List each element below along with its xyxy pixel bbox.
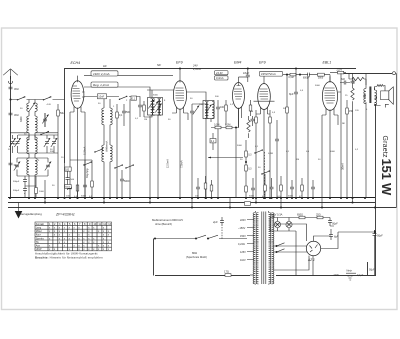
resistor R11 (346, 100, 354, 198)
power transformer T4 (253, 211, 274, 285)
resistor R6 0,3M (225, 123, 232, 129)
resistor R31 (89, 160, 93, 198)
capacitor 30pF (9, 113, 20, 117)
svg-text:50μF: 50μF (377, 235, 383, 238)
svg-text:195V/72mA: 195V/72mA (261, 72, 276, 76)
ECH4 pin stubs (70, 107, 85, 198)
svg-text:Kurz: Kurz (36, 234, 42, 237)
coil L3 (35, 116, 37, 140)
resistor R19 (278, 176, 283, 198)
wire: AZ1 heater from transformer (274, 246, 308, 252)
resistor R1 (57, 104, 65, 122)
svg-text:0,2M: 0,2M (268, 153, 273, 155)
resistor R18 (262, 174, 266, 198)
svg-text:24V: 24V (192, 64, 198, 68)
wire: IFT1 connections (140, 90, 174, 198)
resistor R13 650 (297, 213, 305, 219)
wire: anode measure line 192V/2,2mA (84, 75, 173, 77)
resistor R16 (245, 165, 252, 171)
capacitor C15 3nF (340, 78, 350, 85)
svg-text:0,1M: 0,1M (289, 77, 294, 79)
svg-text:50μF: 50μF (369, 269, 375, 272)
note Zwischenfrequenz (20, 212, 75, 217)
wire: T2 connections (187, 92, 212, 198)
coil L8 (102, 99, 104, 145)
wire: c14 drop (307, 76, 309, 198)
resistor R10 (286, 75, 289, 198)
wire: EM4 anode (239, 76, 248, 78)
capacitor C21 (270, 178, 274, 198)
svg-text:Wellensch.: Wellensch. (106, 140, 109, 152)
rectifier tube AZ1 (306, 241, 320, 262)
svg-text:100: 100 (220, 106, 225, 109)
switch S8 (254, 149, 270, 174)
brand Graetz (381, 136, 388, 159)
resistor R15 (245, 151, 252, 157)
wire: EBL1 anode to output (338, 73, 341, 198)
svg-text:NF: NF (157, 63, 161, 67)
svg-text:Graetz: Graetz (381, 136, 388, 159)
trimmer T1a (148, 100, 154, 109)
wire: lamp top rail (270, 217, 330, 219)
svg-text:Lang: Lang (36, 227, 42, 230)
table row labels (36, 223, 45, 251)
wire: EF9 cathode drop (149, 116, 151, 198)
node coupling (299, 74, 301, 76)
trimmer T1c (152, 102, 158, 111)
svg-text:5000: 5000 (124, 180, 130, 183)
coil L2 (20, 116, 29, 140)
wire: band switch row (11, 99, 65, 101)
note Meßinstrument (152, 218, 183, 226)
measure box 192V 2,2mA (91, 71, 118, 76)
wire: right HT vertical (375, 104, 377, 275)
resistor R25 (249, 100, 252, 116)
label ECH4 (71, 61, 81, 65)
resistor R9 (283, 73, 300, 79)
switch S6 (114, 164, 123, 168)
svg-text:220V: 220V (334, 274, 340, 277)
svg-text:36mA: 36mA (341, 163, 345, 170)
coil L10 (102, 145, 104, 198)
capacitor C8 (122, 104, 131, 122)
capacitor C14 800pF (300, 73, 318, 80)
svg-text:5000: 5000 (249, 196, 255, 198)
trimmer C2 (42, 115, 48, 124)
node bus joints band2 (103, 197, 131, 199)
EBL1 pin stubs (322, 109, 338, 199)
coil L4 (27, 135, 29, 157)
wire: bottom mains right (276, 262, 376, 276)
wire: third bus (8, 207, 397, 209)
capacitor C9 (120, 170, 130, 198)
label RegSpg vertical (86, 168, 89, 178)
mechanical link dashes (221, 227, 223, 239)
label EF9 (176, 61, 183, 65)
resistor R4 (225, 100, 228, 125)
svg-text:1M: 1M (144, 119, 147, 121)
EF9 pin stubs (172, 107, 188, 120)
capacitor C7 300pF (13, 186, 27, 198)
svg-text:1M: 1M (250, 111, 253, 113)
resistor zigzag R26 (247, 116, 250, 138)
value labels scatter group 1 (front end) (13, 97, 64, 195)
capacitor C10 (138, 99, 142, 112)
label 6,3V 0,3A (271, 213, 283, 217)
box 100pF (65, 167, 71, 171)
capacitor C22 (288, 180, 294, 198)
node EBL1 bus (329, 197, 331, 199)
svg-text:EF9: EF9 (259, 61, 266, 65)
trimmer C5b (51, 138, 57, 147)
resistor R17 (245, 140, 248, 198)
wire: main chassis bus (8, 197, 375, 199)
svg-text:30c²: 30c² (14, 87, 19, 91)
wire: lamp bottom rail (270, 218, 296, 276)
resistor R40 1000 (35, 186, 45, 198)
wire: grid row band2 (84, 97, 140, 100)
svg-text:Kontakt: Kontakt (36, 223, 45, 226)
measure box 24,3V (215, 71, 229, 75)
node EF9 bus (179, 197, 181, 199)
switch S3 (40, 131, 49, 135)
tube EM4 (233, 77, 245, 128)
svg-text:ECH4: ECH4 (71, 61, 81, 65)
node EBF bus (263, 197, 265, 199)
trimmer C5a (44, 138, 53, 151)
svg-text:5000: 5000 (237, 145, 243, 147)
svg-text:192V 2,2mA: 192V 2,2mA (93, 72, 110, 76)
svg-text:24,3V: 24,3V (215, 71, 223, 75)
svg-text:650Ω: 650Ω (297, 213, 303, 216)
svg-text:Reg.Spg.: Reg.Spg. (86, 168, 89, 178)
svg-text:TA: TA (36, 241, 39, 244)
mech link dashes 2 (264, 152, 266, 195)
resistor R5 0,3M (214, 123, 221, 129)
coil L11 (110, 145, 112, 198)
svg-text:0,3mA: 0,3mA (216, 76, 224, 80)
svg-text:30c²: 30c² (14, 113, 19, 117)
wire: avc left run (70, 160, 92, 170)
svg-text:220V: 220V (336, 69, 343, 72)
capacitor 16uF (243, 69, 250, 82)
capacitor 8uF b (329, 229, 339, 240)
resistor R20 (299, 178, 303, 198)
wire: top measurement line NF (65, 69, 357, 164)
wire: heater line (272, 215, 275, 218)
transformer primary taps (238, 219, 254, 262)
switch S10 (94, 148, 103, 152)
svg-text:3000: 3000 (20, 116, 23, 122)
node comb joints (245, 197, 314, 199)
trimmer T2b (205, 105, 211, 114)
value labels scatter group 3 (right half) (250, 85, 368, 114)
capacitor C11 (190, 104, 194, 120)
svg-text:150: 150 (349, 110, 354, 113)
wire: AZ1 anode feeds (274, 224, 314, 276)
resistor R2 (116, 104, 123, 130)
svg-text:800pF: 800pF (303, 77, 310, 79)
switch S1 (17, 96, 26, 100)
terminal circle (393, 72, 396, 75)
label 72mA vertical (341, 163, 345, 170)
svg-text:ZF=432kHz: ZF=432kHz (55, 213, 75, 217)
node res bus (255, 197, 278, 199)
switch S7 (125, 164, 134, 168)
node IFT joints (149, 197, 159, 199)
output transformer T3 (364, 74, 381, 199)
box 0,1 (131, 96, 137, 100)
wire: row2 link (10, 132, 58, 134)
label NF (157, 63, 161, 67)
dial lamp La1 (274, 218, 280, 232)
capacitor C12 (216, 100, 225, 198)
field coil zigzag (375, 85, 386, 91)
capacitor C33 (251, 116, 255, 126)
switch selector arms (275, 243, 284, 253)
svg-text:50μF: 50μF (332, 223, 338, 226)
svg-text:11,5mA: 11,5mA (84, 146, 87, 155)
node comb joints 2 (197, 197, 213, 199)
svg-text:2μF: 2μF (212, 220, 218, 224)
box 0,1b (210, 133, 216, 150)
switch S5 (119, 96, 128, 100)
svg-text:110V: 110V (240, 259, 246, 262)
tube EF9 (173, 69, 186, 198)
value labels scatter group 4 (237, 123, 359, 169)
capacitor 50uF a (328, 218, 338, 227)
speaker LS (381, 87, 394, 105)
trimmer C4a (8, 138, 16, 151)
svg-text:(Sperrkreis 9kHz): (Sperrkreis 9kHz) (186, 255, 207, 259)
svg-text:1000: 1000 (39, 191, 45, 193)
wire: band2 verticals to bus (117, 99, 130, 198)
coil L5 (35, 135, 37, 157)
resistor R3 (143, 101, 146, 116)
fuse on bus (245, 202, 251, 206)
resistor R30 (74, 185, 79, 198)
box 5000b (65, 183, 71, 190)
table: band switch chart (35, 222, 112, 251)
svg-text:EBL1: EBL1 (323, 61, 332, 65)
node j287 (286, 67, 309, 199)
note below table line1 (35, 252, 98, 256)
wire: screen measure line Reg 1,2mA (84, 87, 150, 97)
node 341 (340, 197, 354, 199)
label EM4 (234, 61, 241, 65)
wire: bottom mains run (155, 275, 250, 277)
node antenna junction (9, 98, 11, 100)
box 5000 (318, 73, 331, 82)
svg-text:EM4: EM4 (234, 61, 241, 65)
svg-text:0,3M: 0,3M (225, 123, 230, 126)
wire: osc section verticals (45, 113, 58, 198)
note below table line2 (35, 255, 103, 259)
label Wellensch vertical (106, 140, 109, 152)
wire: speaker top line (341, 73, 392, 75)
svg-text:220V: 220V (240, 219, 246, 222)
measure box Reg 1,2mA (91, 82, 118, 87)
svg-text:5000: 5000 (65, 187, 71, 189)
coil L6 (27, 157, 29, 198)
capacitor C24 (195, 178, 200, 198)
svg-text:150V: 150V (240, 235, 246, 238)
EBF pin stubs (256, 108, 270, 115)
wire: AVC line (208, 157, 247, 163)
svg-text:HF: HF (103, 64, 107, 68)
svg-text:Mittel: Mittel (36, 230, 42, 233)
coil L9 (110, 99, 112, 145)
svg-text:5000: 5000 (315, 85, 321, 87)
wire: osc box mid (13, 135, 59, 153)
node left comb joints (69, 197, 93, 199)
svg-text:80Ω: 80Ω (192, 251, 197, 255)
svg-text:Beachte: Hinweis für Netzansch: Beachte: Hinweis für Netzanschluß empfoh… (35, 255, 103, 259)
node bus joints left (9, 197, 66, 199)
capacitor C32 (9, 163, 17, 167)
node grid row (191, 126, 237, 199)
tube EBL1 (322, 76, 337, 198)
capacitor 50uF b (373, 230, 384, 239)
antenna (3, 69, 18, 79)
capacitor C34 (66, 171, 75, 183)
trimmer C4b (14, 138, 20, 147)
mains switch (155, 235, 247, 239)
svg-text:300pF: 300pF (13, 190, 20, 192)
bus stubs and joints lower (44, 198, 354, 209)
svg-text:Netz: Netz (347, 269, 353, 273)
svg-text:300pF: 300pF (13, 181, 20, 183)
svg-text:151 W: 151 W (379, 159, 394, 197)
label Sperrkreis (186, 251, 207, 259)
svg-text:AZ 1: AZ 1 (307, 258, 315, 262)
trimmer T1b (155, 104, 161, 113)
svg-text:16μF: 16μF (243, 71, 249, 75)
svg-text:1M: 1M (296, 159, 299, 161)
wire: block3 frame (17, 158, 48, 176)
label 11,5mA vertical (166, 159, 170, 168)
node ECH4 cathode (76, 197, 78, 199)
svg-text:4-20: 4-20 (47, 104, 52, 106)
svg-text:Bezugsdämpfung: Bezugsdämpfung (20, 212, 42, 216)
trimmer T2a (193, 106, 199, 115)
svg-text:8μF: 8μF (289, 92, 294, 96)
resistor R8 (269, 110, 272, 198)
wire: speaker drop (385, 104, 389, 107)
capacitor C13 (275, 120, 279, 198)
box 0,1M second (330, 69, 346, 74)
wire: c6 row link (25, 176, 36, 186)
table x marks (49, 223, 112, 251)
svg-text:7,5mA: 7,5mA (180, 160, 184, 168)
wire: EM4 grid row (211, 108, 239, 199)
svg-text:11,5mA: 11,5mA (166, 159, 170, 168)
svg-text:Reg. 1,2mA: Reg. 1,2mA (93, 83, 109, 87)
capacitor C17 8uF (289, 69, 298, 198)
svg-text:6,3V 0,3A: 6,3V 0,3A (271, 213, 283, 217)
resistor R7 (255, 110, 258, 198)
svg-text:17Ω: 17Ω (224, 270, 229, 274)
tube EBF2 (254, 76, 275, 198)
node out (364, 197, 376, 209)
capacitor C3 (43, 113, 47, 127)
label EF9 second (259, 61, 266, 65)
tube ECH4 (71, 76, 84, 198)
wire: osc left box vertical to bus (64, 163, 66, 198)
svg-text:5000: 5000 (318, 77, 324, 79)
trimmer C1 (29, 103, 35, 112)
model 151 W (379, 159, 394, 197)
svg-text:Sperrkr.: Sperrkr. (36, 237, 45, 240)
svg-text:0,3M: 0,3M (214, 123, 219, 126)
measure box 195V/72mA (260, 71, 283, 76)
svg-text:25Ω: 25Ω (316, 213, 321, 216)
svg-text:Meßinstrument 2000 Ω/V: Meßinstrument 2000 Ω/V (152, 218, 183, 222)
svg-text:5000: 5000 (330, 151, 336, 153)
svg-text:~150V: ~150V (238, 227, 246, 230)
capacitor C23 (311, 180, 315, 198)
svg-text:10nF: 10nF (98, 95, 104, 99)
wire: switch feed vertical (153, 239, 155, 276)
coil L1 (27, 100, 37, 117)
trimmer C5d (45, 162, 51, 171)
svg-text:0,24Ω: 0,24Ω (238, 243, 245, 246)
svg-text:5000: 5000 (153, 95, 159, 97)
resistor R12 17ohm (224, 270, 253, 277)
svg-text:ohne (Bereich): ohne (Bereich) (155, 222, 172, 226)
antenna coupling circle (8, 81, 12, 84)
IF transformer T2 (203, 101, 214, 119)
dial lamp La2 (286, 218, 292, 232)
coil L7 (35, 157, 37, 198)
capacitor 2uF (212, 217, 224, 226)
label HF (103, 64, 107, 68)
svg-text:EF9: EF9 (176, 61, 183, 65)
label EBL1 (323, 61, 332, 65)
svg-text:0,1μF: 0,1μF (357, 274, 364, 277)
IF transformer T1 (148, 98, 163, 116)
svg-text:3nF: 3nF (341, 78, 346, 81)
capacitor C6 300pF (13, 176, 27, 186)
node ht (374, 231, 376, 233)
resistor R14 25 (316, 213, 323, 219)
capacitor 50cm (9, 87, 20, 91)
node top bus joint (179, 67, 249, 69)
wire: far right edge drop (395, 74, 398, 208)
capacitor C31 (81, 170, 87, 198)
label 50uF c (369, 269, 375, 272)
capacitor block 10nF (98, 94, 107, 99)
svg-text:5000: 5000 (288, 196, 294, 198)
label 24V 2,8mA (192, 64, 201, 72)
wire: AZ1 output (314, 232, 339, 249)
measure box 0,3mA (215, 76, 229, 80)
wire: HT to caps (338, 230, 375, 275)
svg-text:2,8mA: 2,8mA (192, 67, 201, 71)
switch S2 (43, 96, 52, 100)
svg-text:125V: 125V (240, 251, 246, 254)
capacitor C16 8000 (351, 73, 356, 86)
value labels scatter group 2 (mid band) (98, 95, 234, 122)
label 7,5mA (180, 160, 184, 168)
resistor zigzag R23 (351, 86, 354, 198)
resistor R22 (210, 180, 213, 198)
svg-text:5000: 5000 (81, 196, 87, 198)
label 11,5mA cathode vertical (84, 146, 87, 155)
wire: second bus (8, 202, 375, 204)
resistor R21 (204, 176, 207, 198)
resistor zigzag R24 (349, 74, 366, 86)
